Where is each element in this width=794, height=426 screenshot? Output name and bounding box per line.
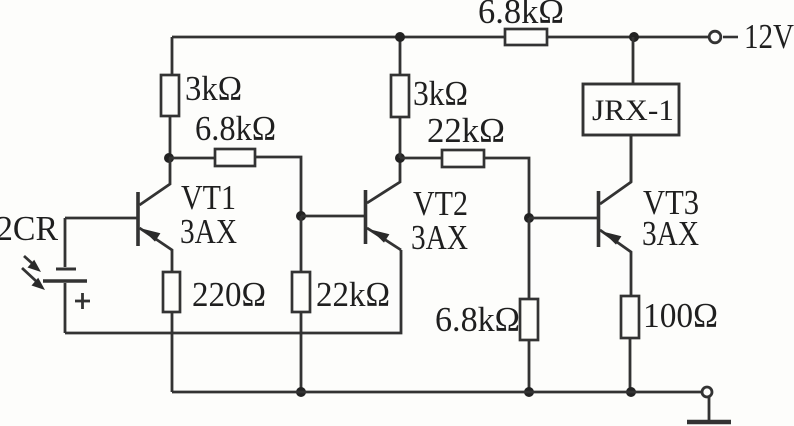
wire rail to 3k VT2 [399,37,402,75]
resistor 22k (VT1 stage) [292,272,310,312]
wire 22k to bottom rail [300,312,303,392]
terminal -12V (open circle) [709,31,721,43]
resistor 6.8k feedback (VT1-VT2) [215,149,255,166]
node bottom rail at 100 ohm [626,387,636,397]
transistor VT2 emitter lead with arrow [367,228,401,250]
wire bottom rail [172,391,702,394]
transistor VT3 emitter lead with arrow [600,230,631,296]
transistor VT3 base bar [597,191,601,247]
svg-text:3kΩ: 3kΩ [185,69,242,108]
photocell 2CR top wire [64,218,67,267]
svg-text:12V: 12V [744,17,794,56]
wire node D down to 6.8k bottom [528,218,531,299]
wire top rail left segment [172,36,505,39]
photocell 2CR long plate [43,279,87,283]
svg-text:3AX: 3AX [180,212,237,251]
wire VT1 base lead [65,217,137,220]
transistor VT3 collector lead [600,135,631,204]
wire relay to VT3 collector [630,135,633,182]
relay JRX-1 box [583,84,679,135]
ground symbol [708,397,711,421]
svg-text:22kΩ: 22kΩ [316,275,390,314]
wire 22k top to corner down to node D [484,158,529,218]
wire node B down to 22k [300,216,303,272]
resistor 6.8k top (series in rail) R-top [505,29,547,45]
photocell plus sign [75,300,90,303]
wire 220 ohm to bottom rail [171,312,174,392]
transistor VT2 base bar [364,190,368,244]
wire photocell bottom down [64,283,67,333]
node C (VT2 collector node) [395,153,405,163]
resistor 220 ohm (VT1 emitter) [163,272,180,312]
node B (VT2 base node) [296,211,306,221]
resistor 100 ohm (VT3 emitter) [621,296,639,338]
svg-text:220Ω: 220Ω [192,275,266,314]
resistor 3k (VT2 collector) [391,75,409,117]
node bottom rail at 6.8k [524,387,534,397]
resistor 3k (VT1 collector) [161,75,179,116]
wire 6.8k mid to corner and down to node B [255,157,301,216]
wire top rail right segment [547,36,709,39]
resistor 22k (VT2-VT3 coupling) [442,150,484,167]
svg-text:3kΩ: 3kΩ [413,74,468,113]
wire node B to VT2 base [301,215,364,218]
terminal ground (open circle) [702,387,712,397]
node bottom rail at 22k [296,387,306,397]
svg-text:6.8kΩ: 6.8kΩ [478,0,564,31]
wire node C to 22k top [400,157,442,160]
wire 3k to node A [169,116,172,158]
minus sign of -12V [723,36,738,39]
light arrow 1 [24,256,34,265]
photocell 2CR short plate [56,268,76,271]
node on rail above VT2 [395,32,405,42]
transistor VT2 collector lead [367,158,400,203]
light arrow 2 [22,268,36,281]
wire rail to relay JRX-1 [632,37,635,84]
svg-text:100Ω: 100Ω [643,296,718,335]
svg-text:3AX: 3AX [642,214,699,253]
wire node D to VT3 base [529,217,597,220]
svg-text:2CR: 2CR [0,209,59,248]
transistor VT1 base bar [136,192,140,246]
wire 6.8k bottom to rail [528,340,531,392]
wire line A (photocell to VT2 emitter) [65,250,401,333]
svg-text:22kΩ: 22kΩ [427,111,505,150]
svg-text:3AX: 3AX [411,218,468,257]
svg-text:6.8kΩ: 6.8kΩ [195,109,276,148]
svg-text:6.8kΩ: 6.8kΩ [435,300,520,339]
node A (VT1 collector node) [164,153,174,163]
transistor VT1 collector lead [140,158,171,205]
resistor 6.8k (VT3 base bias) [520,299,538,340]
node D (VT3 base node) [524,213,534,223]
wire 100 ohm to bottom rail [629,338,632,392]
wire node A to 6.8k mid [169,157,215,160]
wire 3k VT2 to node C [399,117,402,158]
wire VT1 collector branch from rail [171,37,174,75]
svg-text:JRX-1: JRX-1 [592,94,674,127]
node on rail at JRX-1 [629,32,639,42]
transistor VT1 emitter lead with arrow [140,228,173,272]
